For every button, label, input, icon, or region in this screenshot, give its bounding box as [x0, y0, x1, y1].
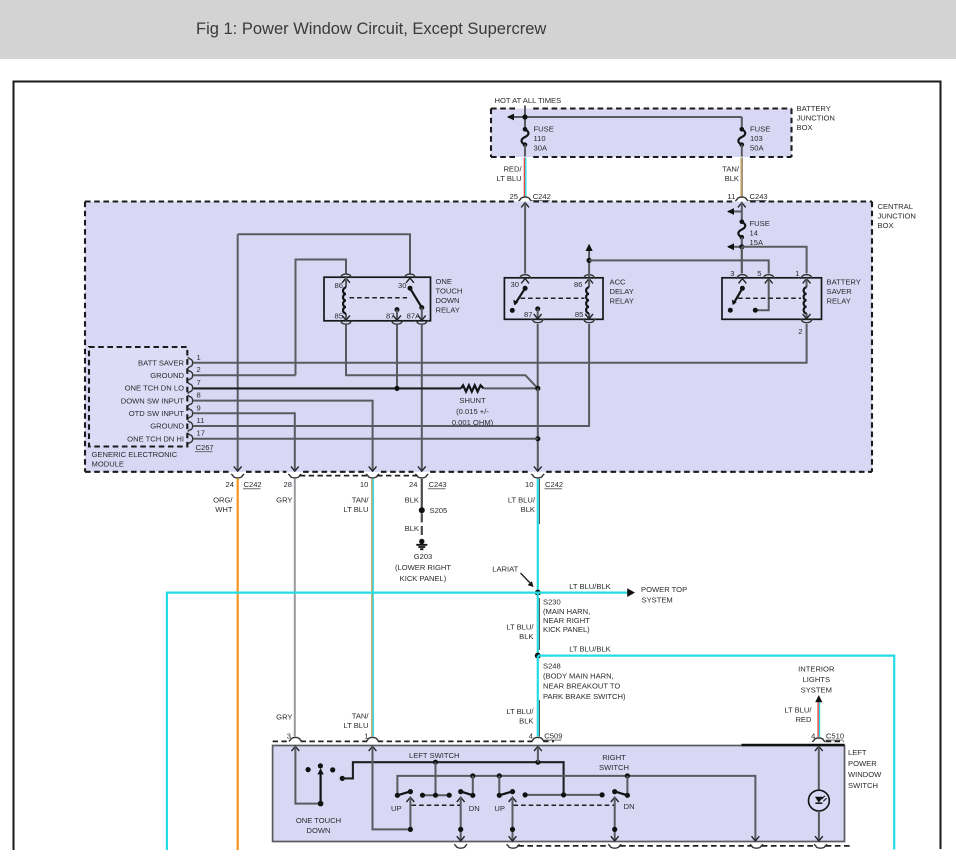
exit arrow bottom x512.5	[509, 836, 517, 841]
entry arrow pin 3	[292, 746, 300, 751]
svg-text:2: 2	[798, 327, 802, 336]
wire fuse 14 to junction	[741, 237, 743, 273]
svg-text:C242: C242	[545, 480, 563, 489]
pin 5 BSR with stub contact	[762, 275, 775, 279]
switch arm BSR	[740, 286, 745, 291]
svg-text:JUNCTION: JUNCTION	[878, 212, 916, 221]
svg-text:DN: DN	[469, 804, 480, 813]
switch arm ACC	[523, 286, 528, 291]
svg-text:ONE TOUCH: ONE TOUCH	[296, 816, 341, 825]
wire fuse103 lower lead	[741, 145, 743, 157]
wire TAN/BLK fuse103 to C243	[740, 158, 742, 197]
wire RED/LT BLU fuse110 to C242	[523, 158, 525, 197]
exit arrow bottom x460.7	[457, 836, 465, 841]
svg-text:30: 30	[398, 281, 406, 290]
connector hump pin 4 C510	[812, 738, 825, 742]
svg-text:87A: 87A	[407, 311, 421, 320]
pin 87 stub	[395, 307, 400, 312]
svg-text:RELAY: RELAY	[610, 296, 634, 305]
svg-text:C509: C509	[544, 731, 562, 740]
svg-text:LT BLU/: LT BLU/	[508, 495, 536, 504]
bottom connector dashed gang line	[518, 845, 852, 847]
splice S205	[419, 507, 425, 513]
wire GEM row8 down sw input	[193, 401, 372, 471]
svg-text:LEFT: LEFT	[848, 748, 867, 757]
svg-text:103: 103	[750, 134, 763, 143]
svg-text:86: 86	[574, 280, 582, 289]
svg-text:0.001 OHM): 0.001 OHM)	[452, 418, 494, 427]
svg-text:17: 17	[197, 429, 205, 438]
connector C510 dash segment	[826, 740, 844, 742]
svg-text:G203: G203	[414, 552, 433, 561]
wire junction to battery saver relay pin 1	[742, 247, 807, 274]
svg-text:C243: C243	[429, 480, 447, 489]
wire LT BLU/RED C510 up	[819, 703, 821, 738]
svg-text:85: 85	[575, 310, 583, 319]
svg-text:86: 86	[335, 281, 343, 290]
svg-text:ACC: ACC	[610, 277, 627, 286]
svg-text:9: 9	[197, 403, 201, 412]
wire TAN/LT BLU C242-10 down	[371, 479, 373, 737]
svg-text:(MAIN HARN,: (MAIN HARN,	[543, 607, 590, 616]
one touch down output contact	[340, 776, 345, 781]
wire ACC85 down to GEM row 11	[193, 324, 589, 426]
relay U1 ONE TOUCH DOWN RELAY	[324, 277, 431, 321]
svg-text:3: 3	[730, 269, 734, 278]
svg-text:BATT SAVER: BATT SAVER	[138, 359, 185, 368]
bottom connector cups	[454, 844, 467, 848]
shunt resistor	[461, 385, 484, 391]
svg-text:POWER: POWER	[848, 759, 877, 768]
left switch common bar	[423, 794, 450, 796]
svg-text:OTD SW INPUT: OTD SW INPUT	[129, 409, 185, 418]
exit arrow x372.6	[369, 466, 377, 471]
svg-text:DOWN: DOWN	[306, 826, 330, 835]
svg-text:LT BLU/: LT BLU/	[506, 707, 534, 716]
svg-text:(BODY MAIN HARN,: (BODY MAIN HARN,	[543, 671, 614, 680]
svg-text:4: 4	[529, 731, 533, 740]
exit arrow x294.8	[291, 466, 299, 471]
svg-text:LT BLU/: LT BLU/	[784, 705, 812, 714]
svg-text:(LOWER RIGHT: (LOWER RIGHT	[395, 563, 451, 572]
pin 87 ACC stub	[535, 306, 540, 311]
wire cyan S248 branch right and down page	[538, 656, 894, 850]
entry arrow pin 4	[534, 746, 542, 751]
wire pin 4 entry	[537, 746, 539, 762]
wire LT BLU/BLK trunk C242-10 to S230	[537, 479, 539, 593]
pin 85	[342, 316, 350, 321]
wire GRY C242-28 down	[294, 479, 296, 737]
svg-text:30: 30	[511, 280, 519, 289]
junction ACC86	[587, 258, 592, 263]
wire BLK C243-24 to S205	[421, 479, 423, 508]
svg-text:S248: S248	[543, 661, 561, 670]
entry arrow pin 1	[369, 746, 377, 751]
svg-text:KICK PANEL): KICK PANEL)	[543, 625, 590, 634]
exit arrow bottom x818.9	[815, 836, 823, 841]
svg-text:24: 24	[409, 480, 417, 489]
svg-text:5: 5	[757, 269, 761, 278]
svg-text:1: 1	[795, 269, 799, 278]
arrow up to interior lights	[815, 695, 822, 702]
svg-text:LT BLU: LT BLU	[343, 721, 368, 730]
pin 2 BSR	[803, 314, 811, 319]
svg-text:BLK: BLK	[405, 495, 419, 504]
svg-text:S230: S230	[543, 597, 561, 606]
svg-text:7: 7	[197, 378, 201, 387]
splice S248	[535, 653, 541, 659]
wire shunt to node	[484, 387, 538, 389]
fuse 110 30A	[522, 129, 529, 144]
ground G203	[419, 539, 424, 544]
entry arrow pin C510	[815, 746, 823, 751]
svg-text:24: 24	[226, 480, 234, 489]
svg-text:WHT: WHT	[215, 505, 233, 514]
svg-text:ONE TCH DN HI: ONE TCH DN HI	[127, 434, 184, 443]
svg-text:BATTERY: BATTERY	[827, 277, 861, 286]
svg-text:87: 87	[524, 310, 532, 319]
svg-text:87: 87	[386, 311, 394, 320]
svg-text:SYSTEM: SYSTEM	[801, 685, 832, 694]
svg-text:LT BLU/BLK: LT BLU/BLK	[569, 645, 611, 654]
svg-text:TOUCH: TOUCH	[436, 286, 463, 295]
right switch DN position	[625, 793, 630, 798]
wire fuse110 lower lead	[524, 145, 526, 157]
connector C509 dashed gang line	[273, 740, 554, 742]
svg-text:UP: UP	[494, 804, 505, 813]
svg-text:C242: C242	[244, 480, 262, 489]
wire left-up output to pin 1	[373, 746, 411, 829]
wire ACC86 up to junction	[588, 260, 590, 277]
svg-text:1: 1	[197, 353, 201, 362]
svg-text:PARK BRAKE SWITCH): PARK BRAKE SWITCH)	[543, 692, 626, 701]
dashed actuator link ACC	[521, 297, 585, 299]
svg-text:BLK: BLK	[521, 505, 535, 514]
svg-text:LIGHTS: LIGHTS	[803, 675, 830, 684]
svg-text:DOWN SW INPUT: DOWN SW INPUT	[121, 396, 185, 405]
svg-text:C267: C267	[196, 443, 214, 452]
connector C243 dashed gang bracket	[300, 475, 417, 477]
svg-text:SAVER: SAVER	[827, 287, 853, 296]
wire GEM row17 one tch dn hi	[193, 438, 538, 440]
svg-text:110: 110	[534, 134, 546, 143]
svg-text:LEFT SWITCH: LEFT SWITCH	[409, 751, 460, 760]
svg-text:TAN/: TAN/	[352, 495, 370, 504]
svg-text:BOX: BOX	[797, 123, 813, 132]
pin 86 ACC	[583, 275, 596, 279]
svg-text:UP: UP	[391, 804, 402, 813]
wire BLK S205 to ground	[421, 513, 423, 538]
wire left-dn output to bottom exit	[460, 797, 462, 841]
junction below fuse 14	[739, 244, 744, 249]
branch with arrow left upper	[728, 211, 742, 213]
svg-text:BLK: BLK	[405, 524, 419, 533]
left power window switch box	[273, 746, 845, 842]
svg-text:KICK PANEL): KICK PANEL)	[400, 574, 447, 583]
svg-text:8: 8	[197, 391, 201, 400]
svg-text:RELAY: RELAY	[827, 296, 851, 305]
svg-text:POWER TOP: POWER TOP	[641, 585, 687, 594]
fuse 103 50A	[738, 129, 745, 144]
wire cyan trunk inside CJB	[537, 388, 539, 471]
one touch down contacts	[318, 763, 323, 768]
wire internal riser x237.7 (to C242 pin 24)	[237, 234, 239, 471]
feed risers to pivots	[473, 776, 628, 795]
svg-text:SHUNT: SHUNT	[459, 396, 486, 405]
svg-text:BLK: BLK	[519, 716, 533, 725]
junction OTD87 on row7	[394, 386, 399, 391]
pin 1 BSR	[800, 275, 813, 279]
svg-text:RED: RED	[795, 715, 812, 724]
dashed rocker link right	[514, 804, 615, 806]
wire bus to fuses	[508, 117, 742, 129]
battery junction box	[491, 109, 792, 158]
switch arm 30-87A	[408, 286, 413, 291]
one touch down arm	[318, 801, 324, 807]
svg-text:DELAY: DELAY	[610, 287, 634, 296]
pin 30	[404, 274, 417, 278]
svg-text:GRY: GRY	[276, 495, 292, 504]
wire BSR pin2 down to GEM row 1	[193, 324, 806, 363]
title bar	[0, 0, 956, 59]
svg-text:Fig 1: Power Window Circuit, E: Fig 1: Power Window Circuit, Except Supe…	[196, 20, 546, 38]
wire cyan S230 branch right to power top system	[538, 591, 628, 593]
pin 3 BSR	[736, 275, 749, 279]
pin 85 ACC	[585, 314, 593, 319]
dashed actuator link OTD	[350, 297, 408, 299]
relay U2 ACC DELAY RELAY	[504, 278, 603, 320]
svg-text:11: 11	[727, 192, 735, 201]
svg-text:CENTRAL: CENTRAL	[878, 202, 913, 211]
svg-text:C242: C242	[533, 192, 551, 201]
connector hump pin 4 C509	[531, 737, 544, 741]
svg-text:LARIAT: LARIAT	[492, 565, 518, 574]
fuse 14 15A	[738, 222, 745, 237]
wire OTD 87A down to C243 pin 24 exit	[421, 325, 423, 471]
branch with arrow left lower	[728, 246, 742, 248]
svg-text:INTERIOR: INTERIOR	[798, 664, 835, 673]
wire GEM row9 otd sw input	[193, 413, 294, 471]
svg-text:DN: DN	[624, 802, 635, 811]
dashed actuator link BSR	[738, 297, 801, 299]
svg-text:NEAR BREAKOUT TO: NEAR BREAKOUT TO	[543, 682, 620, 691]
splice S230	[535, 590, 541, 596]
wire LED to bottom exit	[818, 811, 820, 841]
svg-text:GROUND: GROUND	[150, 371, 184, 380]
arrow continuation left	[507, 114, 514, 121]
svg-text:25: 25	[510, 192, 518, 201]
svg-text:DOWN: DOWN	[436, 296, 460, 305]
right switch common bar	[525, 794, 602, 796]
exit arrow x537.8	[534, 466, 542, 471]
svg-text:BATTERY: BATTERY	[797, 104, 831, 113]
svg-text:BLK: BLK	[725, 174, 739, 183]
svg-text:TAN/: TAN/	[722, 165, 740, 174]
svg-text:15A: 15A	[750, 238, 764, 247]
svg-text:FUSE: FUSE	[534, 125, 554, 134]
connector hump pin 3	[289, 737, 302, 741]
exit arrow bottom x755.4	[752, 836, 760, 841]
pin 87A	[421, 308, 423, 320]
wire hot feed	[524, 106, 526, 118]
svg-text:NEAR RIGHT: NEAR RIGHT	[543, 616, 590, 625]
svg-text:WINDOW: WINDOW	[848, 770, 882, 779]
junction feed/left bar riser	[433, 760, 438, 765]
exit arrow bottom x614.7	[611, 836, 619, 841]
switch feed bus	[397, 776, 755, 841]
wire GEM row7 one tch dn lo to shunt	[193, 387, 461, 389]
svg-text:RIGHT: RIGHT	[602, 753, 626, 762]
wire fuse14 junction to BSR pin 3	[741, 247, 743, 274]
entry arrow C242	[521, 203, 529, 208]
svg-text:LT BLU: LT BLU	[497, 174, 522, 183]
wire right-dn output to bottom exit	[614, 797, 616, 841]
svg-text:(0.015 +/-: (0.015 +/-	[456, 407, 489, 416]
svg-text:ORG/: ORG/	[213, 495, 233, 504]
wire ORG/WHT C242-24 down	[237, 479, 239, 850]
svg-text:FUSE: FUSE	[750, 219, 770, 228]
junction row17 on trunk	[535, 436, 540, 441]
wire cyan S230 branch left down to bottom	[167, 593, 538, 850]
svg-text:BOX: BOX	[878, 221, 894, 230]
svg-text:LT BLU/BLK: LT BLU/BLK	[569, 582, 611, 591]
generic electronic module box	[89, 347, 187, 447]
svg-text:JUNCTION: JUNCTION	[797, 113, 835, 122]
entry arrow C243	[738, 203, 746, 208]
svg-text:C510: C510	[826, 731, 844, 740]
wire ACC87 down to shunt node	[537, 324, 539, 388]
svg-text:30A: 30A	[534, 144, 548, 153]
wire OTD 87 down to shunt row	[396, 325, 398, 389]
connector hump pin 1	[366, 737, 379, 741]
coil OTD	[345, 277, 347, 321]
wire C243 to fuse 14	[741, 203, 743, 222]
central junction box	[85, 202, 872, 472]
junction pin4 on feed line	[535, 760, 540, 765]
dark connector face bar top-right	[742, 744, 845, 746]
svg-text:SYSTEM: SYSTEM	[642, 595, 673, 604]
wire OTD 85 to diagonal to ACC87 node	[346, 325, 538, 389]
wire trunk S248 to C509	[537, 656, 539, 737]
svg-text:ONE TCH DN LO: ONE TCH DN LO	[125, 384, 184, 393]
wire right-up output to bottom exit	[512, 797, 514, 841]
wire riser to left common bar	[435, 762, 437, 795]
svg-text:GRY: GRY	[276, 712, 292, 721]
exit arrow x237.7	[234, 466, 242, 471]
svg-text:SWITCH: SWITCH	[848, 781, 878, 790]
svg-text:RELAY: RELAY	[436, 305, 460, 314]
svg-text:MODULE: MODULE	[92, 460, 125, 469]
svg-text:ONE: ONE	[436, 277, 452, 286]
svg-text:10: 10	[360, 480, 368, 489]
svg-text:FUSE: FUSE	[750, 125, 770, 134]
svg-text:HOT AT ALL TIMES: HOT AT ALL TIMES	[495, 96, 562, 105]
left switch DN position	[470, 793, 475, 798]
exit arrow x421.8	[418, 466, 426, 471]
dashed rocker link left	[412, 804, 461, 806]
svg-text:85: 85	[335, 311, 343, 320]
svg-text:14: 14	[750, 229, 758, 238]
wire junction to BSR pin 5	[589, 260, 769, 273]
svg-text:GENERIC ELECTRONIC: GENERIC ELECTRONIC	[92, 450, 178, 459]
dangling arrow up from ACC86 junction	[588, 251, 590, 261]
svg-text:2: 2	[197, 365, 201, 374]
one-touch-down relay wiring: pin30 feed from internal org/wht riser	[238, 234, 410, 273]
svg-text:28: 28	[284, 480, 292, 489]
wire C242 pin25 to ACC pin30	[524, 203, 526, 274]
coil ACC	[588, 278, 590, 320]
svg-text:TAN/: TAN/	[352, 711, 370, 720]
svg-text:GROUND: GROUND	[150, 422, 184, 431]
right switch UP position	[497, 793, 502, 798]
pin 30 ACC	[519, 275, 532, 279]
wire C510 entry to LED	[818, 746, 820, 790]
svg-text:BLK: BLK	[519, 632, 533, 641]
svg-text:S205: S205	[430, 506, 448, 515]
svg-text:50A: 50A	[750, 144, 764, 153]
svg-text:11: 11	[197, 416, 205, 425]
left switch UP position	[395, 793, 400, 798]
svg-text:10: 10	[525, 480, 533, 489]
svg-text:LT BLU: LT BLU	[343, 505, 368, 514]
wire otd output to feed line	[342, 762, 563, 795]
coil BSR	[806, 278, 808, 320]
pin 86	[340, 274, 353, 278]
LED indicator lamp	[809, 790, 830, 811]
svg-text:LT BLU/: LT BLU/	[506, 622, 534, 631]
svg-text:RED/: RED/	[503, 165, 522, 174]
relay U3 BATTERY SAVER RELAY	[722, 278, 822, 320]
wire trunk S230 to S248	[537, 593, 539, 656]
arrow to power top system	[627, 588, 635, 597]
junction	[522, 114, 527, 119]
wire pin3 to one-touch-down arm	[295, 746, 320, 803]
svg-text:C243: C243	[750, 192, 768, 201]
junction shunt/ACC87/OTD85 node	[535, 386, 540, 391]
wire GEM row2 ground	[193, 374, 295, 376]
svg-text:SWITCH: SWITCH	[599, 763, 629, 772]
wire OTD pin86 to GEM pin2	[296, 260, 347, 376]
